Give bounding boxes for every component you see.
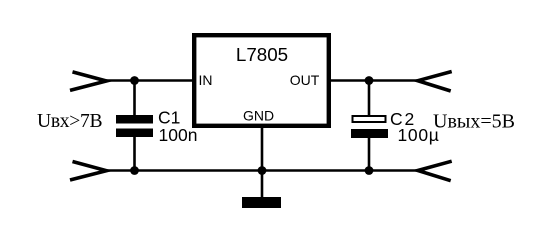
node junction bottom-right [365,166,374,175]
wire output top [329,79,418,82]
wire bottom rail [106,169,418,172]
svg-text:OUT: OUT [290,72,320,88]
wire C1 lower lead [133,136,136,171]
svg-text:GND: GND [243,107,274,123]
svg-text:IN: IN [199,72,213,88]
terminal arrow input top [70,72,106,91]
node junction bottom-middle [258,166,267,175]
wire input top [106,79,194,82]
node junction top-left [130,76,139,85]
terminal arrow input bottom [70,162,106,181]
terminal arrow output bottom [418,161,452,181]
node junction bottom-left [130,166,139,175]
ground symbol [242,197,281,208]
wire C2 upper lead [368,81,371,117]
svg-text:Uвых=5В: Uвых=5В [433,111,515,133]
capacitor C2 top plate (hollow) [353,116,386,122]
svg-text:Uвх>7В: Uвх>7В [37,111,103,132]
wire C1 upper lead [133,81,136,117]
wire C2 lower lead [368,137,371,171]
capacitor C1 top plate [116,115,153,124]
wire GND lead [261,125,264,198]
svg-text:100n: 100n [159,125,198,145]
capacitor C2 bottom plate [351,129,388,138]
node junction top-right [365,76,374,85]
capacitor C1 bottom plate [116,129,153,138]
svg-text:L7805: L7805 [236,44,288,65]
terminal arrow output top [418,72,452,92]
op-amp U1 regulator body L7805 [194,35,329,126]
